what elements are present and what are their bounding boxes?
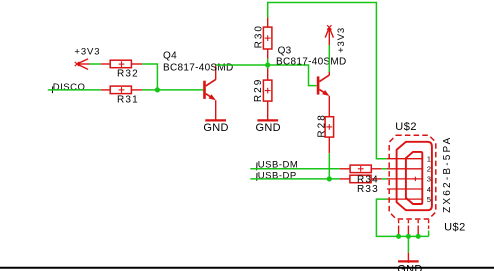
svg-text:4: 4 [427,185,432,194]
wire R34 to USB pin3 [382,178,388,180]
wire GND stub from shield net [407,236,409,252]
svg-text:2: 2 [427,165,431,174]
svg-text:R30: R30 [254,24,265,48]
node junction R28/USB-DP [327,176,332,181]
resistor R33 [340,165,382,195]
node junction shield pin 1 [396,234,401,239]
svg-text:Q4: Q4 [163,51,177,62]
resistor R29 [253,69,272,120]
wire R33 to USB pin2 [382,168,388,170]
resistor R34 [340,175,382,186]
pin 5 line [387,198,423,200]
svg-text:R32: R32 [117,69,139,80]
pin 2 line [387,168,423,170]
wire Q3 collector to +3V3 [328,45,330,72]
svg-text:+3V3: +3V3 [336,27,347,53]
wire from +3V3 arrow to R32 [89,63,100,65]
svg-text:R28: R28 [317,113,328,137]
transistor Q4 [163,51,234,120]
svg-text:Q3: Q3 [278,45,292,56]
svg-text:R29: R29 [253,78,264,102]
svg-text:GND: GND [256,122,281,134]
node junction shield pin 3 [416,234,421,239]
svg-text:+3V3: +3V3 [74,47,100,58]
svg-text:USB-DP: USB-DP [258,171,297,182]
sheet frame line [0,267,494,269]
pin 3 line [387,178,423,180]
node junction shield pin 2 [406,234,411,239]
wire from R32 right down to DISCO net [142,64,157,90]
shield pin 3 [417,220,419,229]
wire DISCO net right segment to Q4 base [142,89,203,91]
label DISCO with origin tick [52,82,85,93]
shield pin 2 [407,220,409,229]
ground GND bottom [397,253,422,271]
supply +3V3 up arrow at Q3 [325,25,347,53]
svg-text:5: 5 [427,195,431,204]
svg-text:R33: R33 [357,184,379,195]
svg-text:U$2: U$2 [444,222,466,234]
wire R30 bottom to node [267,59,269,70]
wire DISCO net left segment [48,89,101,91]
svg-text:R31: R31 [117,95,139,106]
shield pin 4 [428,220,430,231]
transistor Q3 [276,45,347,116]
ground GND at Q4 emitter [203,120,228,134]
pin 1 line [387,158,423,160]
wire Q4 collector to R30/R29 node and Q3 base [216,65,317,86]
label USB-DM with origin tick [257,160,299,171]
pin 4 line [387,188,423,190]
svg-text:1: 1 [427,155,431,164]
wire net +3V3 rail from R30 top to USB pin1 [268,3,387,159]
resistor R32 [101,60,142,79]
svg-text:ZX62-B-5PA: ZX62-B-5PA [442,136,453,213]
label USB-DP with origin tick [257,171,297,182]
supply +3V3 left arrow symbol [74,47,100,70]
node junction DISCO/R31/R32 [155,87,160,92]
wire USB-DP net [250,178,339,180]
connector U$2 outer dashed shield outline [389,135,436,219]
connector U$2 outer solid body [397,142,432,210]
wire USB pin5 to shield/GND net [376,199,428,236]
resistor R28 [317,113,334,153]
wire R28 bottom to USB-DP net [328,153,330,179]
svg-text:3: 3 [427,175,431,184]
ground GND below R29 [256,120,281,134]
wire USB-DM net [250,168,339,170]
pin 3 origin cross [413,178,417,180]
resistor R31 [101,86,142,106]
svg-text:GND: GND [203,122,228,134]
wire shield pin 4 to GND net [428,231,430,237]
svg-text:U$2: U$2 [395,121,417,133]
node junction R30/R29/collector net [265,62,270,67]
shield pin 1 [398,220,400,229]
svg-text:BC817-40SMD: BC817-40SMD [276,57,347,68]
svg-text:R34: R34 [357,175,379,186]
connector U$2 inner cavity [406,152,422,204]
resistor R30 [254,18,272,59]
svg-text:DISCO: DISCO [53,82,86,93]
